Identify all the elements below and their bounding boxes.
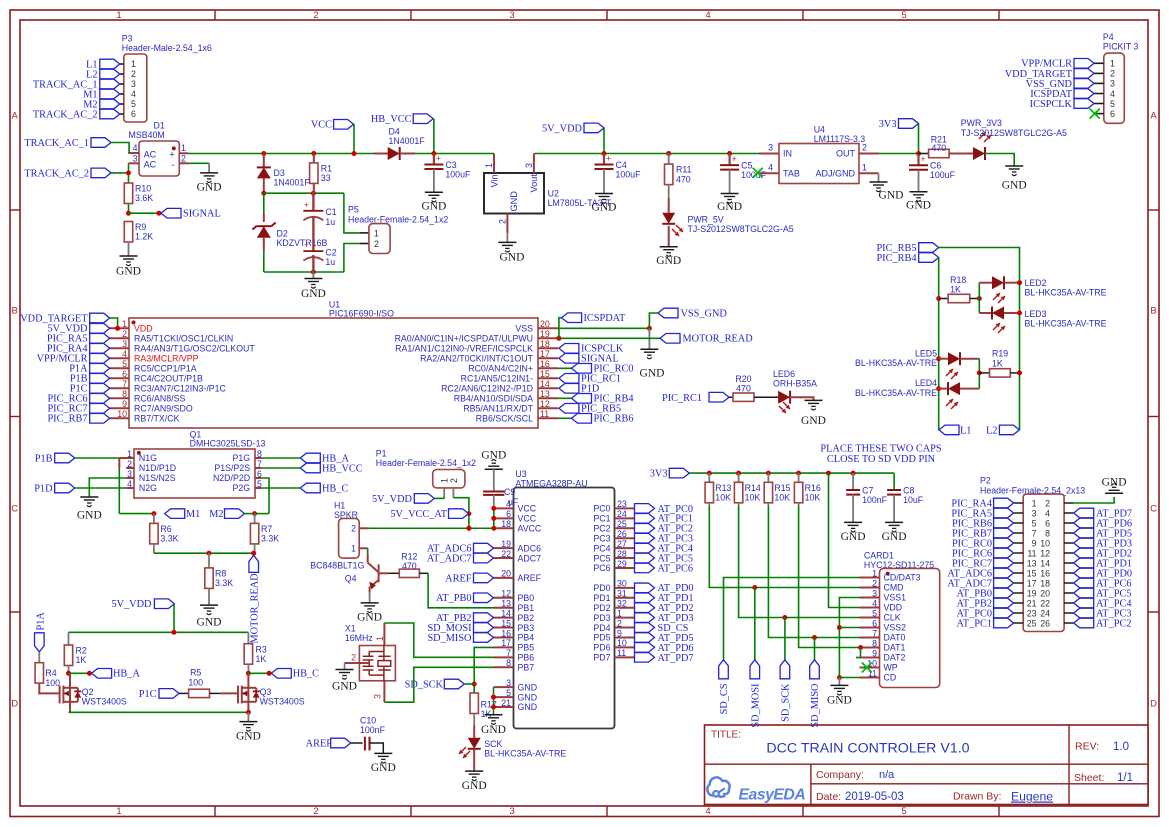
svg-text:470: 470 — [736, 384, 751, 394]
svg-text:6: 6 — [1045, 518, 1050, 528]
svg-text:2: 2 — [862, 142, 867, 152]
svg-text:7: 7 — [872, 628, 877, 638]
svg-text:RC5/CCP1/P1A: RC5/CCP1/P1A — [134, 364, 197, 374]
svg-text:R16: R16 — [805, 483, 821, 493]
svg-text:PC5: PC5 — [593, 553, 610, 563]
svg-text:DCC TRAIN CONTROLER V1.0: DCC TRAIN CONTROLER V1.0 — [766, 741, 969, 757]
svg-text:100nF: 100nF — [360, 725, 386, 735]
svg-text:C10: C10 — [360, 715, 376, 725]
svg-text:Header-Male-2.54_1x6: Header-Male-2.54_1x6 — [122, 43, 212, 53]
svg-text:10K: 10K — [805, 493, 821, 503]
svg-text:2: 2 — [313, 806, 318, 817]
svg-text:3: 3 — [768, 142, 773, 152]
svg-text:5V_VDD: 5V_VDD — [47, 324, 88, 335]
svg-text:4: 4 — [872, 598, 877, 608]
svg-text:AT_PD7: AT_PD7 — [658, 653, 694, 664]
svg-text:1K: 1K — [992, 358, 1003, 368]
svg-text:PC1: PC1 — [593, 514, 610, 524]
svg-text:Q2: Q2 — [82, 687, 94, 697]
svg-text:R13: R13 — [715, 483, 731, 493]
svg-text:2: 2 — [449, 478, 459, 483]
svg-text:Q3: Q3 — [260, 687, 272, 697]
svg-text:19: 19 — [501, 539, 511, 549]
svg-text:8: 8 — [506, 658, 511, 668]
svg-text:C6: C6 — [930, 161, 941, 171]
svg-text:100: 100 — [45, 678, 60, 688]
svg-text:PB0: PB0 — [518, 593, 535, 603]
svg-text:100uF: 100uF — [445, 170, 471, 180]
svg-text:N2D/P2D: N2D/P2D — [213, 473, 250, 483]
svg-text:2: 2 — [498, 219, 508, 224]
svg-text:5: 5 — [901, 10, 906, 21]
svg-text:PD3: PD3 — [593, 613, 610, 623]
svg-text:100: 100 — [188, 677, 203, 687]
svg-text:33: 33 — [321, 173, 331, 183]
svg-text:C: C — [11, 503, 18, 514]
svg-text:R10: R10 — [135, 184, 151, 194]
svg-text:R2: R2 — [76, 646, 87, 656]
svg-text:19: 19 — [540, 329, 550, 339]
svg-text:P2: P2 — [980, 476, 991, 486]
svg-text:10K: 10K — [715, 493, 731, 503]
svg-text:PB2: PB2 — [518, 613, 535, 623]
svg-text:P1C: P1C — [139, 689, 157, 700]
svg-text:R19: R19 — [992, 349, 1008, 359]
svg-text:TJ-S2012SW8TGLC2G-A5: TJ-S2012SW8TGLC2G-A5 — [961, 128, 1067, 138]
svg-text:VCC: VCC — [518, 504, 537, 514]
svg-text:CARD1: CARD1 — [864, 551, 894, 561]
svg-text:P2G: P2G — [232, 483, 250, 493]
svg-text:RB6/SCK/SCL: RB6/SCK/SCL — [476, 414, 533, 424]
svg-text:14: 14 — [540, 379, 550, 389]
svg-text:16MHz: 16MHz — [345, 633, 373, 643]
svg-text:12: 12 — [501, 589, 511, 599]
svg-text:VDD: VDD — [884, 603, 903, 613]
svg-text:1.0: 1.0 — [1113, 741, 1129, 753]
svg-text:470: 470 — [932, 143, 947, 153]
svg-text:P4: P4 — [1103, 32, 1114, 42]
svg-text:1: 1 — [440, 478, 450, 483]
svg-text:+: + — [731, 154, 737, 165]
svg-text:16: 16 — [501, 628, 511, 638]
svg-text:TRACK_AC_1: TRACK_AC_1 — [24, 138, 89, 149]
svg-text:R6: R6 — [160, 524, 171, 534]
svg-text:30: 30 — [617, 579, 627, 589]
svg-text:22: 22 — [501, 549, 511, 559]
svg-text:6: 6 — [872, 618, 877, 628]
svg-text:BL-HKC35A-AV-TRE: BL-HKC35A-AV-TRE — [1025, 288, 1107, 298]
svg-text:3.3K: 3.3K — [261, 534, 279, 544]
svg-text:15: 15 — [501, 618, 511, 628]
svg-text:3V3: 3V3 — [650, 469, 668, 480]
svg-text:D2: D2 — [277, 228, 288, 238]
svg-text:AT_PC6: AT_PC6 — [658, 563, 693, 574]
svg-text:RA0/AN0/C1IN+/ICSPDAT/ULPWU: RA0/AN0/C1IN+/ICSPDAT/ULPWU — [395, 334, 533, 344]
svg-text:12: 12 — [540, 399, 550, 409]
svg-text:BL-HKC35A-AV-TRE: BL-HKC35A-AV-TRE — [1025, 319, 1107, 329]
svg-text:SD_MISO: SD_MISO — [810, 683, 821, 728]
svg-text:AVCC: AVCC — [518, 523, 542, 533]
svg-text:RC7/AN9/SDO: RC7/AN9/SDO — [134, 404, 193, 414]
svg-text:RB5/AN11/RX/DT: RB5/AN11/RX/DT — [463, 404, 533, 414]
svg-text:10: 10 — [617, 638, 627, 648]
svg-text:-: - — [171, 160, 174, 171]
svg-text:RB4/AN10/SDI/SDA: RB4/AN10/SDI/SDA — [454, 394, 533, 404]
svg-text:4: 4 — [122, 349, 127, 359]
svg-text:17: 17 — [1027, 578, 1037, 588]
svg-text:PC6: PC6 — [593, 563, 610, 573]
svg-text:VSS_GND: VSS_GND — [681, 308, 728, 319]
svg-text:RC1/AN5/C12IN1-: RC1/AN5/C12IN1- — [461, 374, 533, 384]
svg-text:24: 24 — [617, 509, 627, 519]
svg-text:10K: 10K — [745, 493, 761, 503]
svg-text:LED3: LED3 — [1025, 309, 1047, 319]
svg-text:R4: R4 — [45, 668, 56, 678]
svg-text:uF: uF — [508, 497, 519, 507]
svg-text:PD2: PD2 — [593, 603, 610, 613]
svg-text:TAB: TAB — [783, 169, 800, 179]
svg-text:100uF: 100uF — [616, 170, 642, 180]
svg-text:AREF: AREF — [445, 573, 472, 584]
svg-text:AT_PC2: AT_PC2 — [1096, 618, 1131, 629]
svg-text:PC4: PC4 — [593, 543, 610, 553]
svg-text:L1: L1 — [960, 425, 971, 436]
svg-text:PB4: PB4 — [518, 633, 535, 643]
svg-text:BL-HKC35A-AV-TRE: BL-HKC35A-AV-TRE — [484, 749, 566, 759]
svg-text:1: 1 — [617, 608, 622, 618]
svg-text:1: 1 — [181, 143, 186, 153]
svg-text:PIC_RB7: PIC_RB7 — [47, 414, 87, 425]
svg-text:D: D — [11, 698, 18, 709]
svg-text:PD6: PD6 — [593, 643, 610, 653]
svg-text:2: 2 — [617, 618, 622, 628]
svg-text:C4: C4 — [616, 160, 627, 170]
svg-text:LED4: LED4 — [915, 378, 937, 388]
svg-text:2: 2 — [313, 10, 318, 21]
svg-text:8: 8 — [122, 389, 127, 399]
svg-text:7: 7 — [1032, 528, 1037, 538]
svg-text:C9: C9 — [504, 487, 515, 497]
svg-text:6: 6 — [122, 369, 127, 379]
svg-text:RC6/AN8/SS: RC6/AN8/SS — [134, 394, 185, 404]
svg-text:1K: 1K — [256, 654, 267, 664]
svg-text:ORH-B35A: ORH-B35A — [773, 379, 817, 389]
svg-text:RA4/AN3/T1G/OSC2/CLKOUT: RA4/AN3/T1G/OSC2/CLKOUT — [134, 344, 255, 354]
svg-text:R1: R1 — [321, 164, 332, 174]
svg-text:REV:: REV: — [1075, 741, 1099, 753]
svg-text:8: 8 — [872, 638, 877, 648]
svg-text:23: 23 — [617, 499, 627, 509]
svg-text:TITLE:: TITLE: — [711, 730, 741, 741]
svg-text:CD: CD — [884, 673, 897, 683]
svg-text:11: 11 — [1027, 548, 1036, 558]
svg-text:13: 13 — [540, 389, 550, 399]
svg-text:1: 1 — [122, 319, 127, 329]
svg-text:1.2K: 1.2K — [135, 232, 153, 242]
svg-text:3: 3 — [524, 163, 534, 168]
svg-text:MOTOR_READ: MOTOR_READ — [683, 334, 754, 345]
svg-text:SCK: SCK — [484, 739, 502, 749]
svg-text:SD_CS: SD_CS — [719, 683, 730, 714]
svg-text:+: + — [304, 200, 309, 210]
svg-text:AC: AC — [144, 160, 157, 170]
svg-text:HB_A: HB_A — [113, 669, 140, 680]
svg-text:GND: GND — [116, 266, 141, 278]
svg-text:GND: GND — [462, 780, 487, 792]
svg-text:GND: GND — [906, 200, 931, 212]
svg-text:2019-05-03: 2019-05-03 — [845, 791, 904, 803]
svg-text:M1: M1 — [186, 509, 200, 520]
svg-text:B: B — [12, 305, 18, 316]
svg-text:VSS: VSS — [515, 324, 533, 334]
svg-text:PIC_RB6: PIC_RB6 — [594, 414, 634, 425]
svg-text:GND: GND — [518, 702, 538, 712]
svg-text:100uF: 100uF — [930, 170, 956, 180]
svg-text:GND: GND — [332, 681, 357, 693]
svg-text:R12: R12 — [401, 552, 417, 562]
svg-text:C2: C2 — [325, 248, 336, 258]
svg-text:LED6: LED6 — [773, 369, 795, 379]
svg-text:11: 11 — [540, 409, 549, 419]
svg-text:ADJ/GND: ADJ/GND — [815, 169, 855, 179]
svg-text:Drawn By:: Drawn By: — [953, 791, 1001, 803]
svg-text:1u: 1u — [325, 217, 335, 227]
svg-text:D1: D1 — [154, 121, 165, 131]
svg-text:Company:: Company: — [816, 769, 864, 781]
svg-text:9: 9 — [122, 399, 127, 409]
svg-text:R3: R3 — [256, 644, 267, 654]
svg-text:5V_VDD: 5V_VDD — [372, 494, 413, 505]
svg-text:CLK: CLK — [884, 613, 901, 623]
svg-text:PLACE THESE TWO CAPS: PLACE THESE TWO CAPS — [820, 444, 941, 455]
svg-text:10uF: 10uF — [903, 495, 924, 505]
svg-text:14: 14 — [1040, 558, 1050, 568]
svg-text:GND: GND — [518, 682, 538, 692]
svg-text:P1S/P2S: P1S/P2S — [214, 463, 250, 473]
svg-text:1N4001F: 1N4001F — [274, 178, 311, 188]
svg-text:+: + — [304, 240, 309, 250]
svg-text:C5: C5 — [741, 161, 752, 171]
svg-text:1: 1 — [1110, 59, 1115, 69]
svg-text:SD_SCK: SD_SCK — [405, 679, 444, 690]
svg-text:21: 21 — [1027, 598, 1037, 608]
svg-text:2: 2 — [122, 329, 127, 339]
svg-text:GND: GND — [801, 415, 826, 427]
svg-text:+: + — [169, 150, 175, 161]
svg-text:5: 5 — [1032, 518, 1037, 528]
svg-text:PIC16F690-I/SO: PIC16F690-I/SO — [329, 309, 394, 319]
svg-text:18: 18 — [501, 519, 511, 529]
svg-text:PB5: PB5 — [518, 643, 535, 653]
svg-text:20: 20 — [1040, 588, 1050, 598]
svg-text:2: 2 — [351, 524, 356, 534]
svg-text:22: 22 — [1040, 598, 1050, 608]
svg-text:P1: P1 — [376, 449, 387, 459]
svg-text:R18: R18 — [950, 275, 966, 285]
svg-text:GND: GND — [197, 617, 222, 629]
svg-text:1/1: 1/1 — [1117, 772, 1133, 784]
svg-text:BL-HKC35A-AV-TRE: BL-HKC35A-AV-TRE — [855, 388, 937, 398]
svg-text:AT_PB0: AT_PB0 — [436, 593, 471, 604]
svg-text:2: 2 — [181, 154, 186, 164]
svg-text:Sheet:: Sheet: — [1074, 772, 1104, 784]
svg-text:RC2/AN6/C12IN2-/P1D: RC2/AN6/C12IN2-/P1D — [441, 384, 533, 394]
svg-text:GND: GND — [371, 762, 396, 774]
svg-text:TRACK_AC_2: TRACK_AC_2 — [24, 168, 89, 179]
svg-text:GND: GND — [841, 531, 866, 543]
svg-text:3: 3 — [122, 339, 127, 349]
svg-text:31: 31 — [617, 589, 627, 599]
svg-text:6: 6 — [131, 109, 136, 119]
svg-text:P1D: P1D — [34, 483, 53, 494]
svg-text:4: 4 — [131, 89, 136, 99]
svg-text:P1G: P1G — [232, 453, 250, 463]
svg-text:11: 11 — [617, 648, 626, 658]
svg-text:DAT1: DAT1 — [884, 643, 906, 653]
svg-text:GND: GND — [827, 695, 852, 707]
svg-text:5V_VDD: 5V_VDD — [542, 123, 583, 134]
svg-text:16: 16 — [1040, 568, 1050, 578]
svg-text:Eugene: Eugene — [1011, 790, 1053, 804]
svg-text:P1B: P1B — [35, 453, 53, 464]
svg-text:RB7/TX/CK: RB7/TX/CK — [134, 414, 180, 424]
svg-text:20: 20 — [501, 569, 511, 579]
svg-text:PB7: PB7 — [518, 662, 535, 672]
svg-text:PD0: PD0 — [593, 583, 610, 593]
svg-text:PB3: PB3 — [518, 623, 535, 633]
svg-text:2: 2 — [131, 69, 136, 79]
svg-text:EasyEDA: EasyEDA — [739, 787, 806, 804]
svg-text:GND: GND — [592, 202, 617, 214]
svg-text:AC: AC — [144, 149, 157, 159]
svg-text:U4: U4 — [814, 124, 825, 134]
svg-text:1: 1 — [484, 163, 494, 168]
svg-text:7: 7 — [506, 648, 511, 658]
svg-text:GND: GND — [509, 191, 519, 212]
svg-text:GND: GND — [640, 368, 665, 380]
svg-text:+: + — [436, 154, 442, 165]
svg-text:R11: R11 — [676, 165, 692, 175]
svg-text:MOTOR_READ: MOTOR_READ — [249, 573, 260, 644]
svg-text:VDD: VDD — [134, 324, 153, 334]
svg-text:D3: D3 — [274, 168, 285, 178]
svg-text:10: 10 — [117, 409, 127, 419]
svg-text:470: 470 — [676, 174, 691, 184]
svg-text:PC0: PC0 — [593, 504, 610, 514]
svg-text:P3: P3 — [122, 34, 133, 44]
svg-text:3: 3 — [509, 806, 514, 817]
svg-text:3: 3 — [506, 678, 511, 688]
svg-text:RA1/AN1/C12IN0-/VREF/ICSPCLK: RA1/AN1/C12IN0-/VREF/ICSPCLK — [395, 344, 533, 354]
svg-text:BL-HKC35A-AV-TRE: BL-HKC35A-AV-TRE — [855, 358, 937, 368]
svg-text:AT_ADC7: AT_ADC7 — [427, 553, 472, 564]
svg-text:B: B — [1150, 305, 1156, 316]
svg-text:12: 12 — [1040, 548, 1050, 558]
svg-text:4: 4 — [705, 10, 710, 21]
svg-text:R20: R20 — [735, 374, 751, 384]
svg-text:ICSPDAT: ICSPDAT — [584, 313, 626, 324]
svg-text:14: 14 — [501, 608, 511, 618]
svg-text:4: 4 — [133, 143, 138, 153]
svg-text:28: 28 — [617, 549, 627, 559]
svg-text:1: 1 — [862, 162, 867, 172]
svg-text:PB6: PB6 — [518, 653, 535, 663]
svg-text:2: 2 — [374, 239, 379, 249]
svg-text:OUT: OUT — [836, 149, 856, 159]
svg-text:PC2: PC2 — [593, 523, 610, 533]
svg-text:GND: GND — [357, 612, 382, 624]
svg-text:1K: 1K — [950, 284, 961, 294]
svg-text:1: 1 — [131, 59, 136, 69]
svg-text:+: + — [606, 154, 612, 165]
svg-text:PC3: PC3 — [593, 533, 610, 543]
svg-text:U3: U3 — [515, 469, 526, 479]
svg-text:D: D — [1150, 698, 1157, 709]
svg-text:3V3: 3V3 — [879, 119, 897, 130]
svg-text:PIC_RB4: PIC_RB4 — [876, 253, 916, 264]
svg-text:VSS1: VSS1 — [884, 593, 907, 603]
svg-text:IN: IN — [783, 149, 792, 159]
svg-text:GND: GND — [500, 252, 525, 264]
svg-text:3: 3 — [131, 79, 136, 89]
svg-text:3: 3 — [509, 10, 514, 21]
svg-text:U2: U2 — [548, 189, 559, 199]
svg-text:RA5/T1CKI/OSC1/CLKIN: RA5/T1CKI/OSC1/CLKIN — [134, 334, 233, 344]
svg-text:10: 10 — [1040, 538, 1050, 548]
svg-text:A: A — [12, 110, 19, 121]
svg-text:L2: L2 — [986, 425, 997, 436]
svg-text:23: 23 — [1027, 608, 1037, 618]
svg-text:M2: M2 — [209, 509, 223, 520]
svg-text:GND: GND — [882, 531, 907, 543]
svg-text:LED5: LED5 — [915, 348, 937, 358]
svg-text:BC848BLT1G: BC848BLT1G — [310, 561, 364, 571]
svg-text:4: 4 — [705, 806, 710, 817]
svg-text:C1: C1 — [325, 207, 336, 217]
svg-text:Header-Female-2.54_1x2: Header-Female-2.54_1x2 — [376, 458, 476, 468]
svg-text:2: 2 — [1045, 498, 1050, 508]
svg-text:GND: GND — [518, 692, 538, 702]
svg-text:C: C — [1150, 503, 1157, 514]
svg-text:9: 9 — [1032, 538, 1037, 548]
svg-text:D4: D4 — [389, 126, 400, 136]
svg-text:19: 19 — [1027, 588, 1037, 598]
svg-text:N1S/N2S: N1S/N2S — [139, 473, 176, 483]
svg-text:DAT2: DAT2 — [884, 653, 906, 663]
svg-text:R7: R7 — [261, 524, 272, 534]
svg-text:GND: GND — [481, 450, 506, 462]
svg-text:R8: R8 — [215, 569, 226, 579]
svg-text:R9: R9 — [135, 222, 146, 232]
svg-text:AT_PC1: AT_PC1 — [957, 618, 992, 629]
svg-text:R15: R15 — [774, 483, 790, 493]
svg-text:X1: X1 — [345, 623, 356, 633]
svg-text:HB_VCC: HB_VCC — [371, 114, 412, 125]
svg-text:2: 2 — [872, 578, 877, 588]
svg-text:3: 3 — [133, 154, 138, 164]
svg-text:HB_C: HB_C — [322, 483, 348, 494]
svg-text:1: 1 — [116, 10, 121, 21]
svg-text:18: 18 — [540, 339, 550, 349]
svg-text:N1D/P1D: N1D/P1D — [139, 463, 176, 473]
svg-text:27: 27 — [617, 539, 627, 549]
svg-text:PD5: PD5 — [593, 633, 610, 643]
svg-text:4: 4 — [768, 162, 773, 172]
svg-text:WP: WP — [884, 663, 898, 673]
svg-text:RA2/AN2/T0CKI/INT/C1OUT: RA2/AN2/T0CKI/INT/C1OUT — [420, 354, 534, 364]
svg-text:5: 5 — [1110, 99, 1115, 109]
svg-text:LED2: LED2 — [1025, 278, 1047, 288]
